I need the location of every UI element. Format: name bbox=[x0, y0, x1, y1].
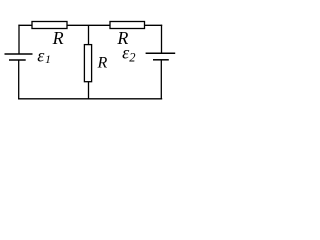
svg-text:R: R bbox=[97, 55, 108, 72]
svg-text:R: R bbox=[52, 28, 64, 48]
